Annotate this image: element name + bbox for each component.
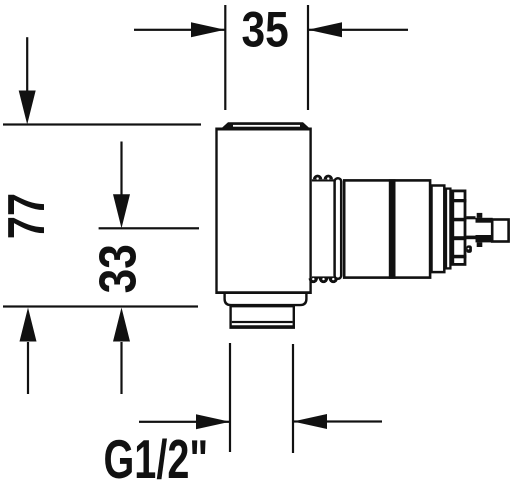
dimension 35: right dimension line [308,29,408,31]
dimension 35: left extension line [224,5,226,110]
dimension 33: bottom arrowhead (up) [113,308,130,342]
cartridge: top thread bump 2 [324,175,333,180]
cartridge: top thread bump 1 [313,175,322,180]
valve body: top lip inner white sliver [233,125,300,127]
svg-text:35: 35 [241,1,288,57]
svg-text:G1/2": G1/2" [104,430,209,488]
outlet: aerator box [229,305,295,329]
cartridge: ring B [446,189,450,269]
cartridge: thread section top line [312,179,335,181]
cartridge: bottom thread bump 2 [319,278,328,283]
cartridge: ring C rib 4 [451,255,466,258]
dimension G1/2: right extension line [292,344,294,453]
cartridge: main cylinder [344,180,430,277]
dimension 35: right arrowhead [308,22,342,37]
dimension G1/2: left extension line [229,343,231,452]
cartridge: black band [389,179,396,278]
dimension G1/2: left dimension line [139,421,230,423]
svg-text:33: 33 [89,244,147,293]
dimension 35: right extension line [307,5,309,110]
dimension 33: top arrowhead (down) [113,194,130,228]
valve body: main rectangle [215,128,311,295]
cartridge: bottom thread bump 1 [309,278,318,283]
cartridge: small knob below ring C [466,245,472,253]
dimension G1/2: right arrowhead [293,414,327,429]
dimension 77: top reference line [3,123,201,125]
cartridge: ring C rib 3 [451,236,466,240]
dimension 33: top arrow shaft [120,142,122,195]
cartridge: ring A [432,186,445,273]
cartridge: ring C rib 2 [451,218,466,222]
cartridge: clip bottom tab [477,242,483,247]
dimension G1/2: right dimension line [293,420,382,422]
cartridge: stem bottom edge [466,236,475,240]
valve body: top lip [221,122,310,128]
cartridge: end adapter box [492,220,508,242]
cartridge: clip section bottom band [476,235,493,242]
dimension 35: left arrowhead [191,22,225,37]
dimension 77: bottom arrow shaft [27,342,29,394]
dimension 77: top arrowhead (down) [19,91,36,125]
cartridge: stem top edge [466,216,475,219]
cartridge: clip top tab [477,213,483,218]
outlet: shoulder with rounded bottom corners [223,293,307,306]
dimension 77: bottom arrowhead (up) [20,308,37,342]
dimension 77: top arrow shaft [26,37,28,93]
cartridge: o-ring capsule [335,178,342,279]
cartridge: ring C ribbed collar [453,191,465,265]
cartridge: clip section top band [476,218,493,223]
dimension 77/33: bottom reference line [3,305,198,307]
cartridge: bottom thread bump 3 [329,278,338,283]
outlet: aerator inner line [232,321,293,323]
dimension G1/2: left arrowhead [196,414,230,429]
svg-text:77: 77 [0,193,55,239]
cartridge: ring C rib 1 [451,199,466,202]
dimension 33: bottom arrow shaft [120,342,122,394]
cartridge: thread section bottom line [312,276,335,278]
dimension 35: left dimension line [134,29,225,31]
dimension 33: middle reference line [99,227,199,229]
